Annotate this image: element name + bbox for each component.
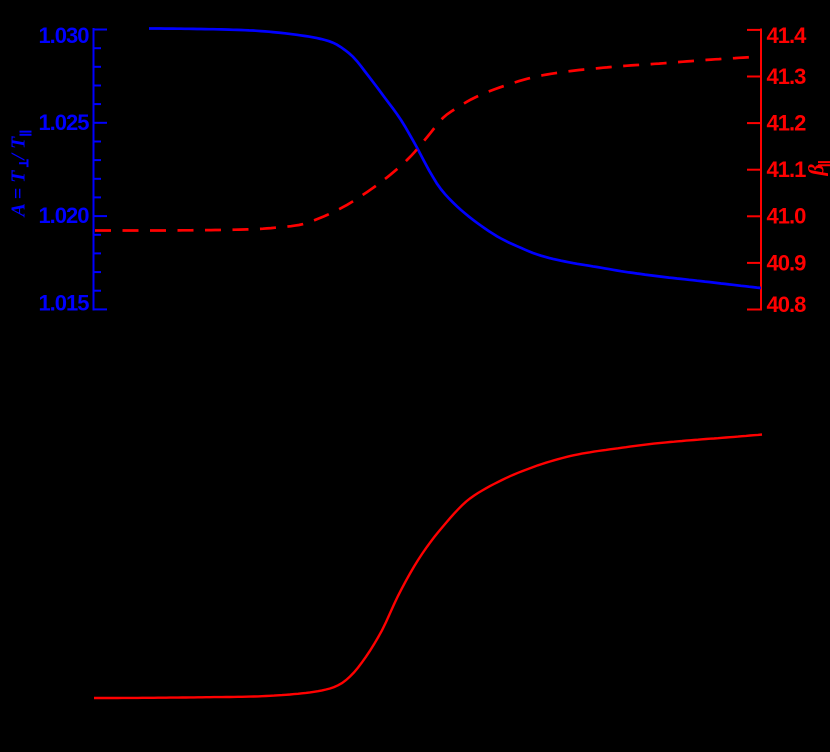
- svg-text:41.3: 41.3: [767, 64, 807, 89]
- svg-text:1.020: 1.020: [38, 203, 89, 228]
- right y-axis title: beta_par: [804, 162, 830, 176]
- svg-text:40.9: 40.9: [767, 250, 807, 275]
- svg-text:1.015: 1.015: [38, 291, 89, 316]
- svg-text:41.2: 41.2: [767, 110, 807, 135]
- right y-axis tick labels: [767, 23, 808, 317]
- blue curve A(t): [149, 29, 761, 289]
- svg-text:1.025: 1.025: [38, 110, 89, 135]
- svg-text:41.1: 41.1: [767, 157, 807, 182]
- left y-axis title: A = T_perp / T_par: [8, 132, 32, 219]
- svg-text:41.0: 41.0: [767, 204, 807, 229]
- svg-text:/ T: / T: [8, 136, 30, 162]
- red dashed curve beta_par(t): [95, 57, 750, 230]
- svg-text:41.4: 41.4: [767, 23, 808, 48]
- right y-axis (red): [747, 29, 761, 311]
- bottom red curve: [94, 435, 762, 699]
- svg-text:1.030: 1.030: [38, 23, 89, 48]
- svg-text:A = T: A = T: [8, 170, 30, 219]
- left y-axis tick labels: [38, 23, 89, 316]
- svg-text:40.8: 40.8: [767, 292, 807, 317]
- left y-axis (blue): [94, 28, 108, 311]
